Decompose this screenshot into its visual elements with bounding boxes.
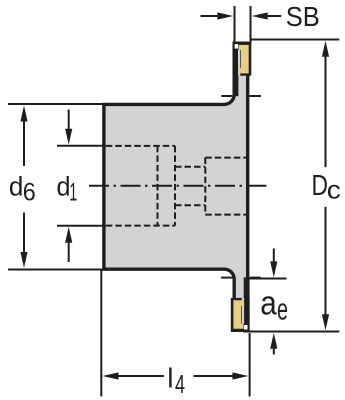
dimension ae: top arrow (273, 249, 275, 264)
dimension d6: bottom extension line (8, 269, 104, 271)
dimension d6: top arrow (20, 106, 27, 122)
top insert pocket assembly (221, 42, 261, 97)
dimension l4: right arrow (232, 372, 248, 379)
svg-text:c: c (327, 175, 341, 205)
white gap square (235, 44, 239, 49)
dimension d1: top arrow (68, 110, 70, 131)
hidden connector bottom (175, 204, 205, 206)
dimension ae: top extension line (247, 278, 287, 280)
dimension Dc: bottom extension line (243, 331, 339, 333)
dimension d6: top extension line (8, 103, 104, 105)
gash line left (221, 95, 232, 97)
dimension SB: right extension line (250, 6, 252, 44)
dimension SB: right arrow (266, 15, 281, 17)
dimension SB: left arrow (201, 15, 219, 17)
dimension l4: left arrow (103, 372, 119, 379)
svg-text:a: a (260, 285, 277, 323)
centerline (89, 185, 269, 187)
dimension d1: bottom arrow (65, 227, 72, 243)
svg-text:e: e (277, 292, 288, 327)
left section band (233, 42, 239, 97)
gash line right (247, 95, 261, 97)
counterbore hidden left edge (204, 158, 206, 215)
dimension Dc: top extension line (251, 39, 339, 41)
dimension ae: bottom arrow (270, 333, 277, 349)
svg-text:l: l (167, 363, 173, 394)
dimension d1: top extension line (57, 145, 106, 147)
dimension l4: right extension line (249, 333, 251, 397)
svg-text:d: d (9, 171, 24, 201)
svg-text:6: 6 (23, 179, 36, 207)
pocket face strip (238, 50, 240, 76)
svg-text:1: 1 (69, 179, 77, 207)
dimension Dc: bottom arrow (325, 207, 327, 316)
bore end hidden line (174, 146, 176, 226)
dimension Dc: top arrow (322, 41, 329, 57)
insert I1 (carbide, gold) (239, 45, 249, 74)
bore step hidden line (157, 146, 159, 226)
counterbore hidden bottom (205, 214, 247, 216)
counterbore hidden top (205, 157, 247, 159)
dimension d6: bottom arrow (23, 213, 25, 254)
svg-text:4: 4 (175, 371, 185, 399)
hidden connector top (175, 166, 205, 168)
pocket block (233, 42, 252, 76)
cutter body silhouette (hub + disc) (104, 43, 248, 330)
bottom insert pocket assembly (insert I2, rotated copy) (221, 277, 261, 332)
bore d1 hidden outline top (106, 145, 175, 147)
bore d1 hidden outline bottom (106, 225, 175, 227)
svg-text:D: D (312, 170, 329, 202)
dimension d1: bottom extension line (57, 225, 106, 227)
svg-text:SB: SB (286, 1, 320, 32)
dimension l4: left extension line (100, 270, 102, 397)
dimension SB: left extension line (234, 6, 236, 42)
